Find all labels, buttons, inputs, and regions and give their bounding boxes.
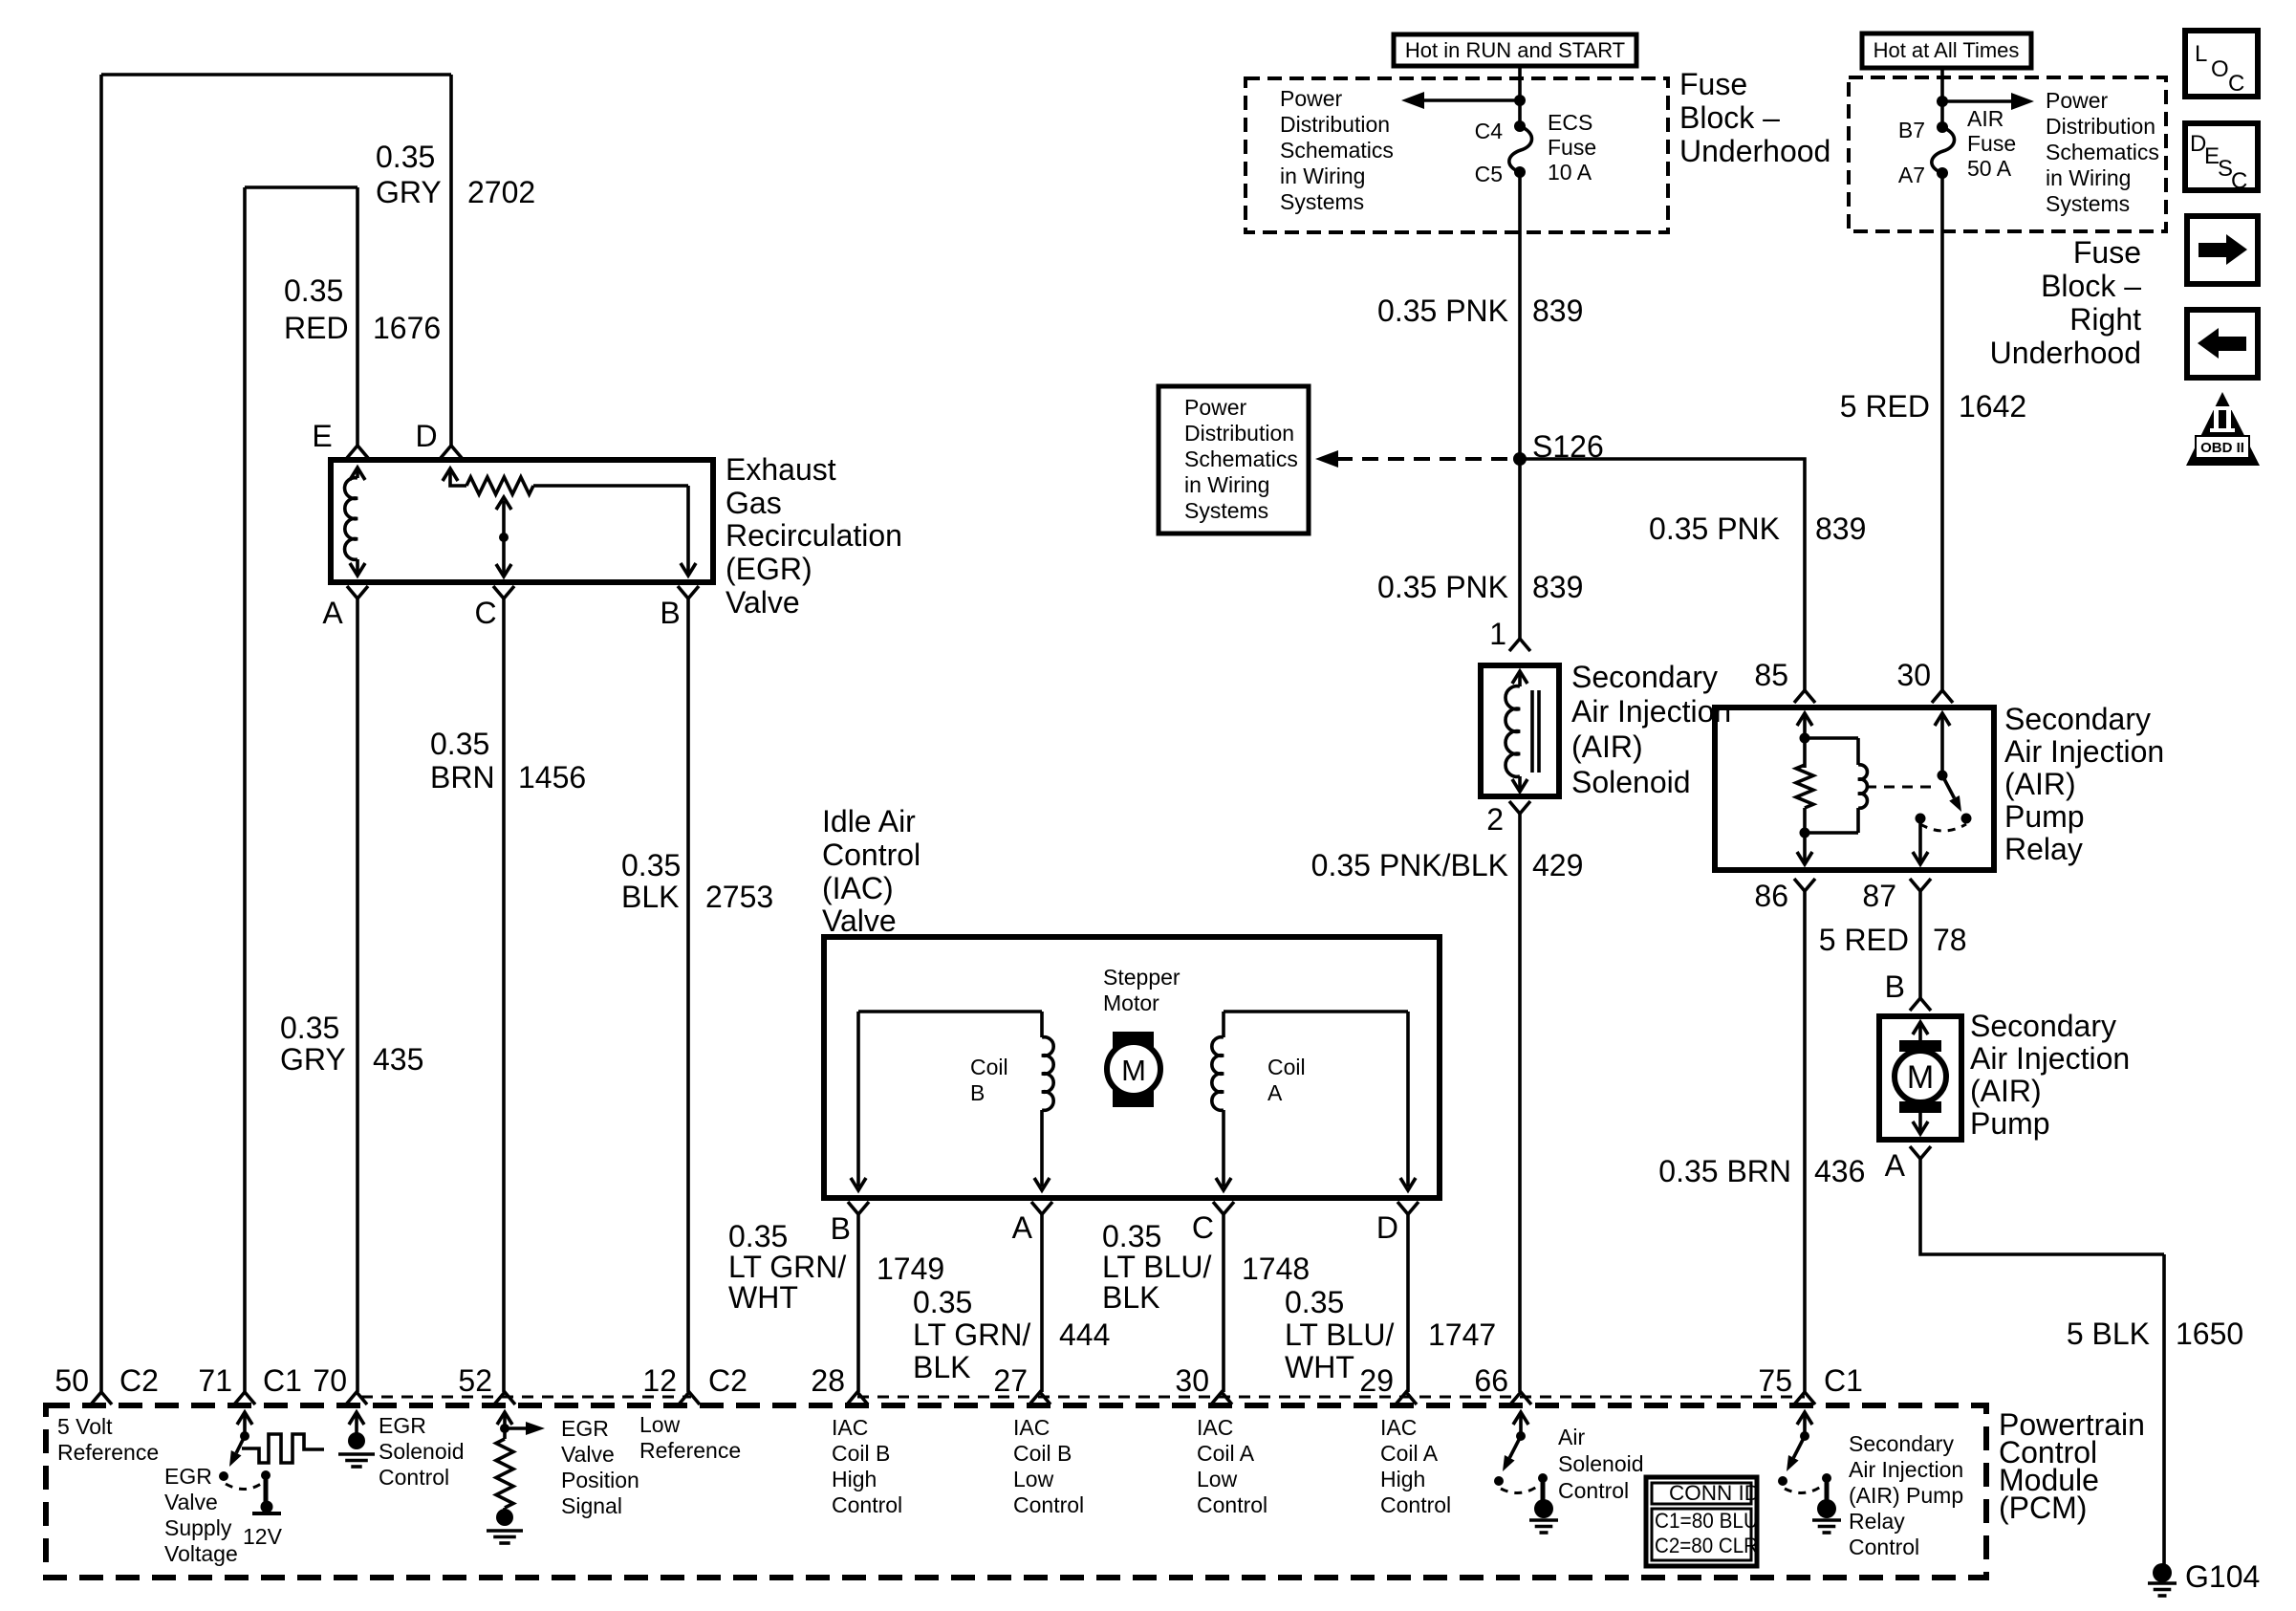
svg-text:Distribution: Distribution bbox=[1184, 421, 1294, 446]
ECS Fuse 10A bbox=[1509, 126, 1532, 172]
svg-text:50: 50 bbox=[54, 1363, 89, 1398]
svg-text:GRY: GRY bbox=[280, 1042, 346, 1077]
svg-text:AIR: AIR bbox=[1967, 106, 2004, 131]
wire 0.35 GRY 2702 (pin 50 branch top run) bbox=[101, 73, 451, 76]
svg-text:C5: C5 bbox=[1475, 162, 1503, 186]
svg-text:Control: Control bbox=[1558, 1478, 1629, 1503]
wire IAC A to PCM pin 27 bbox=[1040, 1214, 1044, 1392]
relay switch armature bbox=[1942, 775, 1955, 798]
svg-text:Hot at All Times: Hot at All Times bbox=[1874, 38, 2020, 62]
svg-text:C1=80 BLU: C1=80 BLU bbox=[1655, 1509, 1758, 1533]
dashed arrow S126 to power distribution bbox=[1336, 457, 1510, 461]
PCM AIR pump relay control switch (pin 75) bbox=[1797, 1412, 1812, 1425]
AIR pump motor bbox=[1913, 1022, 1928, 1034]
svg-text:LT GRN/: LT GRN/ bbox=[913, 1317, 1030, 1352]
wire 1676 vertical to EGR pin E bbox=[356, 187, 359, 446]
LOC icon box bbox=[2185, 31, 2258, 97]
svg-text:WHT: WHT bbox=[1285, 1350, 1354, 1384]
relay dashed actuator link bbox=[1866, 786, 1933, 789]
svg-text:A: A bbox=[1267, 1080, 1283, 1105]
IAC valve box bbox=[824, 937, 1440, 1198]
svg-text:(PCM): (PCM) bbox=[1999, 1491, 2087, 1525]
svg-text:0.35: 0.35 bbox=[1285, 1285, 1344, 1319]
EGR solenoid coil (pin E-A) bbox=[350, 468, 365, 480]
svg-text:2: 2 bbox=[1486, 802, 1504, 837]
svg-text:IAC: IAC bbox=[1197, 1415, 1233, 1440]
wire relay coil to pin 86 bbox=[1803, 833, 1807, 861]
Hot at All Times header box bbox=[1862, 33, 2031, 68]
svg-text:Air Injection: Air Injection bbox=[1571, 694, 1731, 729]
svg-text:Pump: Pump bbox=[2004, 799, 2085, 834]
wire IAC C to PCM pin 30 bbox=[1222, 1214, 1225, 1392]
svg-text:(AIR): (AIR) bbox=[1571, 729, 1643, 764]
svg-text:Valve: Valve bbox=[822, 903, 897, 938]
DESC icon box bbox=[2185, 123, 2258, 190]
AIR solenoid box bbox=[1481, 665, 1559, 796]
svg-text:C2: C2 bbox=[119, 1363, 159, 1398]
wire EGR A to PCM pin 70 bbox=[356, 599, 359, 1392]
svg-text:Schematics: Schematics bbox=[2046, 140, 2159, 164]
svg-text:IAC: IAC bbox=[832, 1415, 868, 1440]
svg-text:Pump: Pump bbox=[1970, 1106, 2050, 1141]
svg-text:A: A bbox=[1885, 1148, 1906, 1183]
svg-text:Control: Control bbox=[379, 1465, 449, 1490]
PCM position signal ground bbox=[496, 1509, 513, 1526]
svg-text:0.35: 0.35 bbox=[376, 140, 435, 174]
svg-text:Distribution: Distribution bbox=[1280, 112, 1390, 137]
svg-text:(IAC): (IAC) bbox=[822, 871, 894, 905]
svg-text:Hot in RUN and START: Hot in RUN and START bbox=[1405, 38, 1625, 62]
12V supply contact bbox=[261, 1470, 271, 1480]
svg-text:0.35 PNK: 0.35 PNK bbox=[1649, 512, 1780, 546]
relay switch common pin 30 bbox=[1935, 713, 1950, 726]
svg-text:GRY: GRY bbox=[376, 175, 442, 209]
svg-text:EGR: EGR bbox=[561, 1416, 609, 1441]
svg-text:Position: Position bbox=[561, 1468, 639, 1492]
svg-text:87: 87 bbox=[1862, 879, 1896, 913]
svg-text:D: D bbox=[1376, 1210, 1398, 1245]
svg-text:OBD II: OBD II bbox=[2200, 440, 2244, 456]
svg-text:5 Volt: 5 Volt bbox=[57, 1414, 113, 1439]
node S126 bbox=[1513, 452, 1527, 466]
svg-text:50 A: 50 A bbox=[1967, 156, 2012, 181]
arrow to power distribution (right) bbox=[1942, 99, 2013, 103]
connector boundary dashed line 2 bbox=[857, 1396, 1805, 1399]
svg-text:A: A bbox=[1012, 1210, 1033, 1245]
Hot in RUN and START header box bbox=[1394, 34, 1636, 66]
wire EGR C to PCM pin 52 bbox=[502, 599, 506, 1392]
svg-text:High: High bbox=[1380, 1467, 1425, 1491]
svg-text:Coil: Coil bbox=[970, 1055, 1008, 1079]
svg-text:Secondary: Secondary bbox=[2004, 702, 2151, 736]
svg-text:LT BLU/: LT BLU/ bbox=[1102, 1250, 1212, 1284]
svg-text:71: 71 bbox=[198, 1363, 232, 1398]
relay resistor bbox=[1803, 738, 1807, 768]
svg-text:C: C bbox=[474, 596, 496, 630]
wire S126 to AIR pump relay pin 85 bbox=[1520, 459, 1805, 690]
wire 0.35 RED 1676 top run bbox=[245, 185, 357, 189]
wire ECS fuse to S126 bbox=[1518, 172, 1522, 639]
svg-text:1749: 1749 bbox=[877, 1252, 944, 1286]
svg-text:Idle Air: Idle Air bbox=[822, 804, 916, 838]
AIR pump relay box bbox=[1715, 708, 1994, 870]
svg-text:27: 27 bbox=[993, 1363, 1028, 1398]
svg-text:Fuse: Fuse bbox=[1679, 67, 1747, 101]
svg-text:Control: Control bbox=[1849, 1535, 1919, 1559]
svg-text:G104: G104 bbox=[2185, 1559, 2260, 1594]
IAC coil A bbox=[1222, 1012, 1225, 1037]
svg-text:Control: Control bbox=[1013, 1492, 1084, 1517]
wire IAC D to PCM pin 29 bbox=[1406, 1214, 1410, 1392]
svg-text:436: 436 bbox=[1814, 1154, 1865, 1188]
PCM EGR valve supply switch (pin 71) bbox=[237, 1412, 252, 1425]
svg-text:C1: C1 bbox=[1824, 1363, 1863, 1398]
svg-text:Block –: Block – bbox=[1679, 100, 1780, 135]
svg-text:C4: C4 bbox=[1475, 119, 1504, 143]
svg-text:A7: A7 bbox=[1898, 163, 1925, 187]
svg-text:Coil A: Coil A bbox=[1197, 1441, 1255, 1466]
svg-text:Reference: Reference bbox=[639, 1438, 741, 1463]
svg-text:Power: Power bbox=[1280, 86, 1343, 111]
connector C1 boundary dashed line bbox=[361, 1396, 691, 1399]
svg-text:(EGR): (EGR) bbox=[726, 552, 812, 586]
AIR Fuse 50A bbox=[1932, 127, 1955, 173]
wire EGR B to PCM pin 12 bbox=[686, 599, 690, 1392]
svg-text:429: 429 bbox=[1532, 848, 1583, 882]
svg-text:Control: Control bbox=[1197, 1492, 1267, 1517]
wire AIR pump to G104 bbox=[1920, 1159, 2164, 1564]
svg-text:Right: Right bbox=[2069, 302, 2141, 337]
svg-text:Supply: Supply bbox=[164, 1515, 232, 1540]
svg-text:0.35: 0.35 bbox=[284, 273, 343, 308]
svg-text:LT GRN/: LT GRN/ bbox=[728, 1250, 846, 1284]
svg-text:1748: 1748 bbox=[1242, 1252, 1310, 1286]
svg-text:WHT: WHT bbox=[728, 1280, 798, 1315]
svg-text:BLK: BLK bbox=[1102, 1280, 1159, 1315]
wire IAC B to PCM pin 28 bbox=[856, 1214, 860, 1392]
wire from Hot in RUN into fuse bbox=[1518, 66, 1522, 122]
wire AIR solenoid to PCM pin 66 bbox=[1518, 814, 1522, 1392]
svg-text:Underhood: Underhood bbox=[1990, 336, 2141, 370]
svg-text:Systems: Systems bbox=[1184, 498, 1268, 523]
wire AIR fuse to relay pin 30 bbox=[1940, 173, 1944, 690]
EGR position wiper (pin C) bbox=[502, 501, 506, 576]
svg-text:85: 85 bbox=[1754, 658, 1788, 692]
svg-text:0.35 PNK: 0.35 PNK bbox=[1377, 570, 1508, 604]
svg-text:1642: 1642 bbox=[1959, 389, 2026, 424]
svg-text:5 RED: 5 RED bbox=[1819, 923, 1909, 957]
svg-text:0.35 PNK/BLK: 0.35 PNK/BLK bbox=[1311, 848, 1508, 882]
ground G104 bbox=[2153, 1563, 2172, 1582]
svg-text:1676: 1676 bbox=[373, 311, 441, 345]
svg-text:ECS: ECS bbox=[1548, 110, 1592, 135]
svg-text:Coil A: Coil A bbox=[1380, 1441, 1439, 1466]
junction dot bbox=[1514, 95, 1526, 106]
svg-text:435: 435 bbox=[373, 1042, 423, 1077]
svg-text:Motor: Motor bbox=[1103, 991, 1159, 1015]
svg-text:Low: Low bbox=[1013, 1467, 1054, 1491]
svg-text:12V: 12V bbox=[243, 1524, 283, 1549]
svg-text:0.35 BRN: 0.35 BRN bbox=[1658, 1154, 1791, 1188]
svg-text:B: B bbox=[831, 1211, 851, 1246]
svg-text:in Wiring: in Wiring bbox=[1184, 472, 1269, 497]
svg-text:Recirculation: Recirculation bbox=[726, 518, 902, 553]
relay bottom junction bbox=[1800, 828, 1810, 838]
OBD II triangle icon bbox=[2186, 392, 2260, 466]
svg-text:Fuse: Fuse bbox=[1967, 131, 2016, 156]
svg-text:66: 66 bbox=[1474, 1363, 1508, 1398]
wire relay contact to pin 87 bbox=[1918, 818, 1922, 861]
svg-text:0.35: 0.35 bbox=[1102, 1219, 1161, 1253]
svg-text:5 BLK: 5 BLK bbox=[2067, 1317, 2150, 1351]
relay coil branch pin 85 bbox=[1797, 713, 1812, 726]
svg-text:Coil B: Coil B bbox=[1013, 1441, 1072, 1466]
wire relay pin 86 to PCM pin 75 bbox=[1803, 891, 1807, 1392]
IAC stepper motor M bbox=[1113, 1032, 1154, 1107]
svg-text:C1: C1 bbox=[263, 1363, 302, 1398]
svg-text:in Wiring: in Wiring bbox=[2046, 165, 2131, 190]
svg-text:444: 444 bbox=[1059, 1317, 1110, 1352]
svg-text:Underhood: Underhood bbox=[1679, 134, 1830, 168]
svg-text:B7: B7 bbox=[1898, 118, 1925, 142]
svg-text:BLK: BLK bbox=[913, 1350, 970, 1384]
svg-text:Relay: Relay bbox=[1849, 1509, 1905, 1534]
svg-text:E: E bbox=[312, 419, 332, 453]
svg-text:EGR: EGR bbox=[164, 1464, 212, 1489]
svg-text:Schematics: Schematics bbox=[1184, 446, 1298, 471]
svg-text:12: 12 bbox=[642, 1363, 677, 1398]
svg-text:Coil: Coil bbox=[1267, 1055, 1306, 1079]
svg-text:O: O bbox=[2211, 56, 2229, 82]
svg-text:Voltage: Voltage bbox=[164, 1541, 238, 1566]
svg-text:Low: Low bbox=[1197, 1467, 1238, 1491]
svg-text:(AIR): (AIR) bbox=[1970, 1074, 2042, 1108]
EGR valve box bbox=[331, 460, 713, 582]
svg-text:78: 78 bbox=[1933, 923, 1967, 957]
svg-text:High: High bbox=[832, 1467, 877, 1491]
svg-text:Secondary: Secondary bbox=[1849, 1431, 1954, 1456]
svg-text:Secondary: Secondary bbox=[1571, 660, 1718, 694]
svg-text:1650: 1650 bbox=[2176, 1317, 2243, 1351]
svg-text:Distribution: Distribution bbox=[2046, 114, 2155, 139]
svg-text:C2: C2 bbox=[708, 1363, 747, 1398]
CONN ID table bbox=[1646, 1477, 1757, 1566]
svg-text:in Wiring: in Wiring bbox=[1280, 163, 1365, 188]
svg-text:0.35: 0.35 bbox=[280, 1011, 339, 1045]
wire relay pin 87 to AIR pump bbox=[1918, 891, 1922, 998]
svg-text:Schematics: Schematics bbox=[1280, 138, 1394, 163]
wire 2702 vertical to EGR pin D bbox=[449, 75, 453, 446]
svg-text:Gas: Gas bbox=[726, 486, 782, 520]
svg-text:75: 75 bbox=[1758, 1363, 1792, 1398]
svg-text:Fuse: Fuse bbox=[2073, 235, 2141, 270]
svg-text:(AIR): (AIR) bbox=[2004, 767, 2076, 801]
wire to PCM pin 71 bbox=[243, 187, 247, 1392]
svg-text:2753: 2753 bbox=[705, 880, 773, 914]
svg-text:Block –: Block – bbox=[2041, 269, 2141, 303]
svg-text:Air: Air bbox=[1558, 1425, 1585, 1449]
svg-text:CONN ID: CONN ID bbox=[1669, 1481, 1760, 1505]
right arrow icon box bbox=[2187, 216, 2258, 284]
svg-text:B: B bbox=[660, 596, 680, 630]
Fuse Block Underhood dashed box bbox=[1245, 78, 1668, 232]
svg-text:Solenoid: Solenoid bbox=[379, 1439, 465, 1464]
left arrow icon box bbox=[2187, 310, 2258, 378]
AIR solenoid coil bbox=[1512, 671, 1527, 684]
relay coil bbox=[1858, 765, 1867, 808]
PCM EGR valve position signal input (pin 52) bbox=[497, 1412, 512, 1425]
svg-text:0.35: 0.35 bbox=[913, 1285, 972, 1319]
svg-text:Power: Power bbox=[2046, 88, 2109, 113]
svg-text:0.35: 0.35 bbox=[430, 727, 489, 761]
svg-text:70: 70 bbox=[313, 1363, 347, 1398]
svg-text:Relay: Relay bbox=[2004, 832, 2083, 866]
svg-text:Air Injection: Air Injection bbox=[2004, 734, 2164, 769]
PCM pulse waveform symbol bbox=[242, 1434, 324, 1463]
svg-text:28: 28 bbox=[811, 1363, 845, 1398]
PCM air solenoid control switch (pin 66) bbox=[1513, 1412, 1528, 1425]
svg-text:Stepper: Stepper bbox=[1103, 965, 1180, 990]
svg-text:0.35 PNK: 0.35 PNK bbox=[1377, 294, 1508, 328]
svg-text:IAC: IAC bbox=[1380, 1415, 1417, 1440]
svg-text:C: C bbox=[2231, 168, 2247, 194]
svg-text:1456: 1456 bbox=[518, 760, 586, 795]
svg-text:A: A bbox=[322, 596, 343, 630]
svg-text:30: 30 bbox=[1896, 658, 1931, 692]
svg-text:1747: 1747 bbox=[1428, 1317, 1496, 1352]
svg-text:Reference: Reference bbox=[57, 1440, 159, 1465]
svg-text:Coil B: Coil B bbox=[832, 1441, 890, 1466]
AIR pump box bbox=[1879, 1016, 1961, 1140]
PCM EGR solenoid control driver (pin 70) bbox=[349, 1412, 364, 1425]
svg-text:B: B bbox=[1885, 969, 1905, 1004]
svg-text:Systems: Systems bbox=[1280, 189, 1364, 214]
svg-text:Control: Control bbox=[832, 1492, 902, 1517]
svg-text:BRN: BRN bbox=[430, 760, 495, 795]
svg-text:Solenoid: Solenoid bbox=[1571, 765, 1691, 799]
AIR solenoid core lines bbox=[1532, 690, 1539, 773]
svg-text:EGR: EGR bbox=[379, 1413, 426, 1438]
svg-text:Fuse: Fuse bbox=[1548, 135, 1596, 160]
svg-text:86: 86 bbox=[1754, 879, 1788, 913]
svg-text:Signal: Signal bbox=[561, 1493, 622, 1518]
svg-text:5 RED: 5 RED bbox=[1840, 389, 1930, 424]
svg-text:Valve: Valve bbox=[561, 1442, 615, 1467]
svg-text:Low: Low bbox=[639, 1412, 681, 1437]
svg-text:D: D bbox=[415, 419, 437, 453]
svg-text:LT BLU/: LT BLU/ bbox=[1285, 1317, 1395, 1352]
svg-text:29: 29 bbox=[1359, 1363, 1394, 1398]
svg-text:(AIR) Pump: (AIR) Pump bbox=[1849, 1483, 1963, 1508]
svg-text:RED: RED bbox=[284, 311, 349, 345]
svg-text:Exhaust: Exhaust bbox=[726, 452, 836, 487]
svg-text:0.35: 0.35 bbox=[728, 1219, 788, 1253]
Power Distribution Schematics box bbox=[1159, 386, 1309, 533]
svg-text:10 A: 10 A bbox=[1548, 160, 1592, 185]
svg-text:52: 52 bbox=[458, 1363, 492, 1398]
svg-text:L: L bbox=[2195, 41, 2207, 67]
svg-text:30: 30 bbox=[1175, 1363, 1209, 1398]
svg-text:Power: Power bbox=[1184, 395, 1247, 420]
wire 5 Volt Reference to PCM pin 50 bbox=[99, 75, 103, 1392]
svg-text:839: 839 bbox=[1532, 570, 1583, 604]
wire from Hot at All Times into fuse bbox=[1940, 68, 1944, 123]
svg-text:Secondary: Secondary bbox=[1970, 1009, 2116, 1043]
junction dot bbox=[1937, 96, 1948, 107]
PCM dashed box bbox=[46, 1405, 1986, 1578]
svg-text:2702: 2702 bbox=[467, 175, 535, 209]
svg-text:B: B bbox=[970, 1080, 985, 1105]
relay switch contacts bbox=[1916, 814, 1926, 824]
PCM position signal resistor bbox=[503, 1428, 507, 1439]
svg-text:Systems: Systems bbox=[2046, 191, 2130, 216]
svg-text:Solenoid: Solenoid bbox=[1558, 1451, 1644, 1476]
svg-text:M: M bbox=[1907, 1059, 1934, 1096]
svg-text:M: M bbox=[1121, 1054, 1146, 1087]
svg-text:839: 839 bbox=[1532, 294, 1583, 328]
svg-text:C: C bbox=[2228, 71, 2244, 97]
svg-text:Air Injection: Air Injection bbox=[1849, 1457, 1963, 1482]
svg-text:Control: Control bbox=[822, 838, 921, 872]
svg-text:Valve: Valve bbox=[164, 1490, 218, 1514]
svg-text:839: 839 bbox=[1815, 512, 1866, 546]
svg-text:Control: Control bbox=[1380, 1492, 1451, 1517]
svg-text:BLK: BLK bbox=[621, 880, 679, 914]
svg-text:C2=80 CLR: C2=80 CLR bbox=[1655, 1534, 1758, 1557]
svg-text:C: C bbox=[1192, 1210, 1214, 1245]
svg-text:Valve: Valve bbox=[726, 585, 800, 620]
svg-text:0.35: 0.35 bbox=[621, 848, 681, 882]
arrow to power distribution (left) bbox=[1422, 98, 1520, 102]
svg-text:IAC: IAC bbox=[1013, 1415, 1050, 1440]
Fuse Block Right Underhood dashed box bbox=[1849, 77, 2166, 231]
svg-text:1: 1 bbox=[1489, 617, 1506, 651]
IAC coil B bbox=[1040, 1012, 1044, 1037]
EGR position sensor resistor (pin D-B) bbox=[443, 468, 458, 481]
svg-text:Air Injection: Air Injection bbox=[1970, 1041, 2130, 1076]
